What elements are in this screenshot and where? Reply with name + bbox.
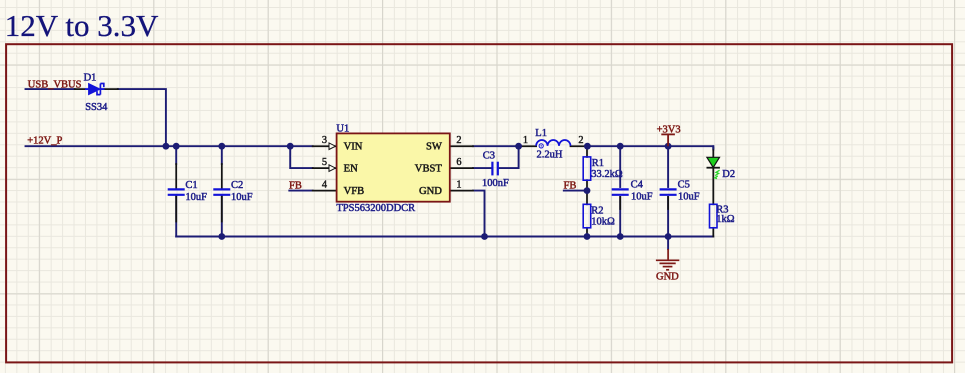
svg-text:C5: C5 xyxy=(678,180,690,191)
svg-text:FB: FB xyxy=(289,181,302,192)
svg-text:C1: C1 xyxy=(185,180,197,191)
svg-text:1kΩ: 1kΩ xyxy=(716,214,735,225)
svg-text:FB: FB xyxy=(564,181,577,192)
svg-text:VIN: VIN xyxy=(344,142,363,153)
svg-text:5: 5 xyxy=(322,157,327,168)
svg-text:10uF: 10uF xyxy=(185,192,207,203)
svg-text:+12V_P: +12V_P xyxy=(27,136,62,147)
svg-text:33.2kΩ: 33.2kΩ xyxy=(591,169,623,180)
svg-text:1: 1 xyxy=(456,180,461,191)
svg-text:10kΩ: 10kΩ xyxy=(591,216,615,227)
svg-text:GND: GND xyxy=(656,272,679,283)
svg-text:+3V3: +3V3 xyxy=(657,125,681,136)
svg-text:2: 2 xyxy=(578,135,583,146)
svg-text:EN: EN xyxy=(344,164,358,175)
svg-text:D1: D1 xyxy=(84,72,97,83)
svg-text:SS34: SS34 xyxy=(85,102,108,113)
svg-text:10uF: 10uF xyxy=(678,192,700,203)
svg-text:L1: L1 xyxy=(535,128,547,139)
svg-text:VBST: VBST xyxy=(415,164,443,175)
svg-text:U1: U1 xyxy=(336,123,349,134)
svg-text:3: 3 xyxy=(322,135,327,146)
svg-text:R2: R2 xyxy=(591,206,603,217)
svg-text:SW: SW xyxy=(426,142,442,153)
svg-text:10uF: 10uF xyxy=(231,192,253,203)
svg-text:C3: C3 xyxy=(483,150,495,161)
svg-text:10uF: 10uF xyxy=(631,192,653,203)
svg-text:2: 2 xyxy=(456,135,461,146)
svg-text:C2: C2 xyxy=(231,180,243,191)
svg-text:12V to 3.3V: 12V to 3.3V xyxy=(5,8,159,43)
svg-text:USB_VBUS: USB_VBUS xyxy=(28,79,82,90)
svg-text:VFB: VFB xyxy=(344,186,365,197)
svg-text:TPS563200DDCR: TPS563200DDCR xyxy=(336,203,415,214)
svg-text:6: 6 xyxy=(456,157,461,168)
svg-text:1: 1 xyxy=(523,135,528,146)
svg-text:4: 4 xyxy=(322,180,327,191)
svg-text:100nF: 100nF xyxy=(482,178,509,189)
svg-text:R1: R1 xyxy=(592,158,604,169)
svg-text:GND: GND xyxy=(419,186,442,197)
svg-text:2.2uH: 2.2uH xyxy=(537,149,563,160)
svg-text:C4: C4 xyxy=(631,180,644,191)
svg-text:D2: D2 xyxy=(722,169,735,180)
